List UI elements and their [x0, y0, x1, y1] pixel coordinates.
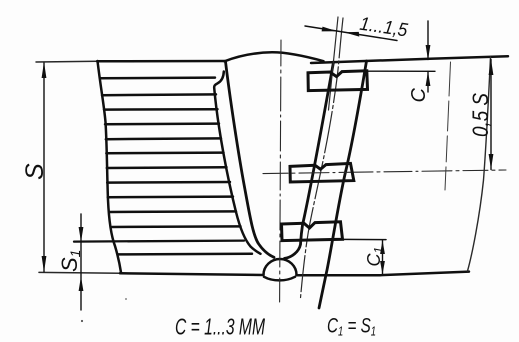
0,5S arrow up: [489, 60, 494, 76]
bottom edge line right segment: [297, 272, 470, 276]
left plate left edge: [98, 61, 122, 273]
weld layer line 5: [106, 137, 221, 140]
gap companion thin line: [329, 17, 339, 110]
root bead dome: [264, 259, 297, 275]
C arrow down: [426, 45, 431, 60]
svg-text:S: S: [21, 163, 49, 180]
tab 1 (top clamp bar): [308, 71, 368, 91]
C lower extension line: [368, 70, 436, 72]
weld layer line 3: [104, 108, 218, 111]
tilted plate axis thin line: [301, 18, 344, 298]
left groove face outer line: [226, 62, 275, 258]
1...1,5 left arrow: [322, 27, 337, 32]
weld layer line 7: [107, 166, 227, 169]
dimension C1 line: [382, 240, 384, 274]
svg-text:C1 = S1: C1 = S1: [327, 315, 376, 339]
dimension C line upper part: [427, 21, 429, 60]
left bevel inner line with rounded cap: [214, 72, 260, 254]
dimension S1 line: [80, 214, 82, 310]
C1 arrow up: [380, 240, 385, 254]
root bead bottom bulge: [264, 277, 295, 281]
tab 2 (middle clamp bar): [290, 163, 354, 182]
weld layer line 4: [105, 122, 219, 125]
svg-text:C: C: [408, 88, 430, 103]
leader line for 1...1,5: [305, 26, 397, 41]
weld layer line 13: [118, 253, 252, 256]
scan speck dot 1: [81, 320, 83, 322]
1...1,5 right arrow: [344, 32, 359, 37]
dimension 0,5S line: [490, 60, 492, 170]
right plate left face (groove side): [285, 62, 334, 258]
svg-text:C = 1...3 MM: C = 1...3 MM: [175, 314, 266, 340]
bottom edge line left segment: [39, 271, 121, 274]
svg-text:0,5 S: 0,5 S: [468, 93, 493, 137]
weld layer line 10: [110, 210, 237, 213]
weld layer line 12 with S1 extension: [74, 241, 244, 242]
weld layer line 1: [100, 76, 215, 79]
weld layer line 11: [112, 225, 241, 228]
weld cap bead on top: [225, 52, 324, 61]
right plate top edge: [311, 56, 508, 63]
weld layer line 2: [102, 93, 216, 96]
weld layer line 8: [107, 181, 230, 184]
left plate top edge with S extension: [36, 60, 98, 63]
tab 3 bottom edge extension (C1 reference): [343, 238, 387, 240]
thin auxiliary line right of C: [445, 62, 451, 190]
dimension C line lower part: [427, 72, 429, 93]
S arrow down: [42, 256, 47, 272]
0,5S arrow down: [489, 154, 494, 170]
S1 arrow down (outside, above): [79, 227, 84, 242]
vertical center line (dash-dot): [280, 40, 281, 302]
right plate right face: [319, 61, 367, 308]
dimension S line: [43, 63, 45, 272]
S1 arrow up (outside, below): [79, 276, 84, 291]
C1 arrow down: [380, 261, 385, 274]
tab 3 (bottom clamp bar): [282, 222, 343, 241]
right plate far edge line: [468, 57, 491, 271]
C arrow up: [426, 71, 431, 86]
scan speck dot 2: [125, 298, 127, 300]
S arrow up: [42, 62, 47, 78]
weld layer line 6: [106, 151, 223, 154]
horizontal center line (dash-dot): [263, 170, 506, 174]
weld layer line 9: [108, 195, 233, 198]
